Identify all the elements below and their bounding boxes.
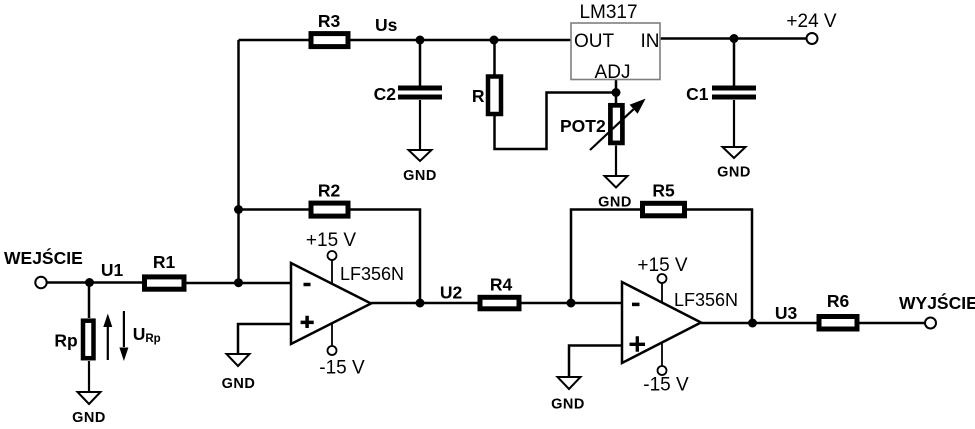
svg-text:GND: GND [403,168,437,184]
svg-text:Us: Us [375,15,398,35]
svg-text:LF356N: LF356N [340,264,404,284]
svg-text:-15 V: -15 V [319,358,365,379]
svg-text:R3: R3 [318,11,341,31]
svg-text:LM317: LM317 [579,2,637,23]
svg-text:U3: U3 [775,303,798,323]
svg-text:R1: R1 [153,252,176,272]
svg-text:R4: R4 [490,275,513,295]
svg-text:R2: R2 [318,181,341,201]
svg-text:+24 V: +24 V [786,11,837,32]
svg-text:GND: GND [717,165,751,181]
svg-text:-15 V: -15 V [643,375,689,396]
svg-text:POT2: POT2 [560,116,606,136]
svg-text:+15 V: +15 V [306,230,357,251]
svg-text:U1: U1 [101,260,124,280]
svg-text:+15 V: +15 V [637,255,688,276]
svg-text:GND: GND [72,410,106,426]
svg-text:ADJ: ADJ [595,62,631,83]
svg-text:R5: R5 [652,181,675,201]
svg-text:GND: GND [551,397,585,413]
svg-text:GND: GND [598,195,632,211]
svg-text:GND: GND [222,376,256,392]
svg-text:C2: C2 [374,84,397,104]
svg-text:WEJŚCIE: WEJŚCIE [4,247,83,268]
svg-text:R6: R6 [827,291,850,311]
svg-text:IN: IN [641,31,660,52]
svg-text:C1: C1 [686,84,709,104]
svg-text:LF356N: LF356N [674,290,738,310]
svg-text:WYJŚCIE: WYJŚCIE [899,292,975,313]
svg-text:OUT: OUT [574,31,615,52]
svg-text:R: R [472,86,485,106]
svg-text:Rp: Rp [54,331,77,351]
svg-text:U2: U2 [440,283,463,303]
